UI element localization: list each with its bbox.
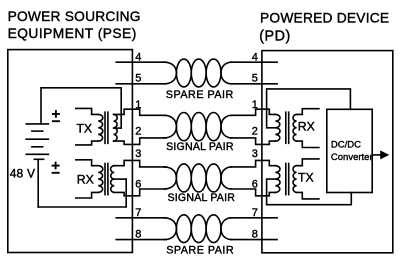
wire T2 center tap lead [114, 178, 126, 180]
transformer T4 TX (PD) left winding [275, 166, 280, 193]
transformer T3 RX (PD) core [285, 112, 287, 143]
DC output arrowhead [380, 150, 389, 159]
wire T4 center tap to DC/DC bottom [267, 179, 352, 205]
transformer T4 TX (PD) core [285, 164, 287, 195]
svg-text:POWERED DEVICE: POWERED DEVICE [260, 11, 389, 26]
svg-text:SIGNAL PAIR: SIGNAL PAIR [168, 192, 236, 204]
svg-text:(PD): (PD) [259, 28, 291, 44]
wire T1 left winding bottom lead (stub) [76, 141, 98, 145]
wire negative return rail [38, 179, 126, 207]
transformer T3 RX (PD) left winding [275, 114, 280, 141]
transformer T3 RX (PD) right winding [293, 114, 297, 141]
twisted pair 1-2 (signal) entry/exit curves [164, 115, 232, 138]
wire T3 right winding top lead (stub) [297, 109, 319, 115]
twisted pair 4-5 (spare) loops [176, 59, 191, 87]
svg-text:POWER SOURCING: POWER SOURCING [8, 9, 141, 24]
wire pin 5 PD stub [231, 83, 277, 85]
twisted pair 3-6 (signal) entry/exit curves [164, 167, 232, 189]
svg-text:1: 1 [135, 99, 141, 111]
twisted pair 7-8 (spare) entry/exit curves [164, 218, 232, 240]
svg-text:Converter: Converter [331, 152, 373, 163]
svg-text:4: 4 [252, 51, 258, 63]
twisted pair 7-8 (spare) loops [176, 215, 191, 243]
wire pin 3 PSE (T2 top to twist) [114, 160, 166, 167]
wire pin 4 PD stub [231, 61, 277, 63]
twisted pair 1-2 (signal) loops [176, 113, 191, 141]
svg-text:8: 8 [252, 228, 258, 240]
svg-text:SIGNAL PAIR: SIGNAL PAIR [166, 141, 234, 153]
wire T2 left winding bottom lead (stub) [76, 192, 98, 198]
twisted pair 3-6 (signal) loops [176, 164, 191, 192]
svg-text:4: 4 [135, 51, 141, 63]
svg-text:2: 2 [252, 126, 258, 138]
wire pin 1 PSE (T1 top to twist) [114, 109, 166, 115]
svg-text:3: 3 [252, 148, 258, 160]
svg-text:TX: TX [298, 171, 314, 185]
wire battery negative lead [37, 159, 39, 207]
wire T3 center tap to DC/DC top [267, 89, 351, 128]
transformer T1 TX (PSE) left winding [98, 114, 103, 141]
wire T4 right winding bottom lead (stub) [297, 192, 319, 199]
wire pin 8 PD stub [231, 239, 277, 241]
svg-text:7: 7 [252, 207, 258, 219]
transformer T2 RX (PSE) right winding [111, 166, 115, 193]
svg-text:5: 5 [135, 73, 141, 85]
polarity symbol upper ± [52, 110, 60, 121]
svg-text:SPARE PAIR: SPARE PAIR [166, 245, 234, 257]
wire T1 center tap lead [114, 127, 122, 129]
svg-text:5: 5 [252, 73, 258, 85]
svg-text:EQUIPMENT (PSE): EQUIPMENT (PSE) [8, 26, 137, 41]
wire pin 2 PD (twist to T3) [231, 138, 275, 145]
svg-text:1: 1 [252, 99, 258, 111]
battery BT1 48V plates [26, 124, 48, 159]
transformer T1 TX (PSE) core [104, 112, 106, 143]
svg-text:7: 7 [135, 207, 141, 219]
wire T1 left winding top lead (stub) [76, 108, 98, 114]
wire pin 7 PSE stub [116, 217, 166, 219]
svg-text:SPARE PAIR: SPARE PAIR [166, 89, 234, 101]
wire T3 right winding bottom lead (stub) [297, 141, 319, 147]
wire +48V rail down to TX center tap [120, 88, 122, 128]
svg-text:DC/DC: DC/DC [331, 139, 361, 150]
wire pin 8 PSE stub [116, 239, 166, 241]
svg-text:8: 8 [135, 228, 141, 240]
svg-text:48 V: 48 V [10, 166, 36, 180]
twisted pair 4-5 (spare) entry/exit curves [164, 62, 232, 84]
svg-text:TX: TX [76, 122, 92, 136]
svg-text:3: 3 [135, 148, 141, 160]
PSE enclosure box [8, 50, 133, 253]
DC output arrow shaft [372, 154, 381, 156]
svg-text:RX: RX [77, 172, 94, 186]
wire battery positive lead to +48V rail [41, 88, 121, 124]
wire T4 right winding top lead (stub) [297, 159, 319, 166]
wire T2 left winding top lead (stub) [76, 160, 98, 166]
svg-text:RX: RX [298, 119, 315, 133]
polarity symbol lower ± [52, 162, 60, 173]
wire pin 1 PD (twist to T3) [231, 109, 275, 115]
wire pin 3 PD (twist to T4) [231, 160, 275, 167]
wire pin 2 PSE (T1 bottom to twist) [114, 138, 166, 145]
wire pin 6 PSE (T2 bottom to twist) [114, 189, 166, 196]
svg-text:2: 2 [135, 126, 141, 138]
transformer T2 RX (PSE) core [104, 164, 106, 195]
wire pin 4 PSE stub [116, 61, 166, 63]
wire pin 5 PSE stub [116, 83, 166, 85]
transformer T2 RX (PSE) left winding [98, 166, 103, 193]
wire pin 6 PD (twist to T4) [231, 189, 275, 196]
transformer T4 TX (PD) right winding [293, 166, 297, 193]
transformer T1 TX (PSE) right winding [114, 114, 118, 141]
PD enclosure box [262, 51, 393, 253]
wire pin 7 PD stub [231, 217, 277, 219]
svg-text:6: 6 [252, 179, 258, 191]
DC/DC converter U1 box [327, 109, 372, 192]
svg-text:6: 6 [135, 179, 141, 191]
